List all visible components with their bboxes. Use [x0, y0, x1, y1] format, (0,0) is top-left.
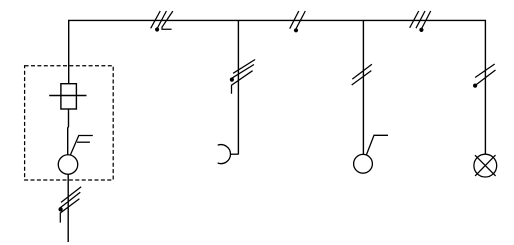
- junction dot (left branch): [58, 207, 62, 211]
- wire: fuse to switch: [67, 109, 70, 155]
- wire: branch drop 2: [362, 20, 364, 154]
- wire: branch drop 1: [237, 20, 239, 154]
- conductor marks group A (3 slashes on bus): [151, 11, 173, 29]
- switch Q1 (in box, two-bar flag): [58, 136, 93, 175]
- conductor marks drop 2 (2 slashes): [352, 64, 372, 85]
- conductor marks group C (3 slashes on bus): [410, 11, 431, 29]
- conductor marks left branch (3 slashes): [60, 187, 81, 223]
- junction dot (group A): [155, 27, 159, 31]
- fuse FU: [49, 84, 86, 109]
- wire: top distribution bus with left riser and right feeder drop: [69, 20, 486, 154]
- junction dot (group C): [419, 28, 423, 32]
- lamp E1: [474, 154, 497, 177]
- junction dot (group B): [294, 28, 298, 32]
- conductor marks drop 3 (2 slashes): [475, 64, 495, 85]
- junction dot (drop 1): [230, 78, 234, 82]
- distribution box (dashed enclosure): [25, 66, 114, 180]
- socket outlet X1 (arc symbol): [218, 145, 239, 164]
- junction dot (drop 3): [473, 84, 477, 88]
- switch Q2 (single-bar flag): [354, 135, 388, 173]
- wire: below box (outgoing left branch): [67, 174, 69, 242]
- conductor marks drop 1 (3 slashes): [232, 60, 256, 94]
- conductor marks group B (2 slashes on bus): [290, 11, 306, 29]
